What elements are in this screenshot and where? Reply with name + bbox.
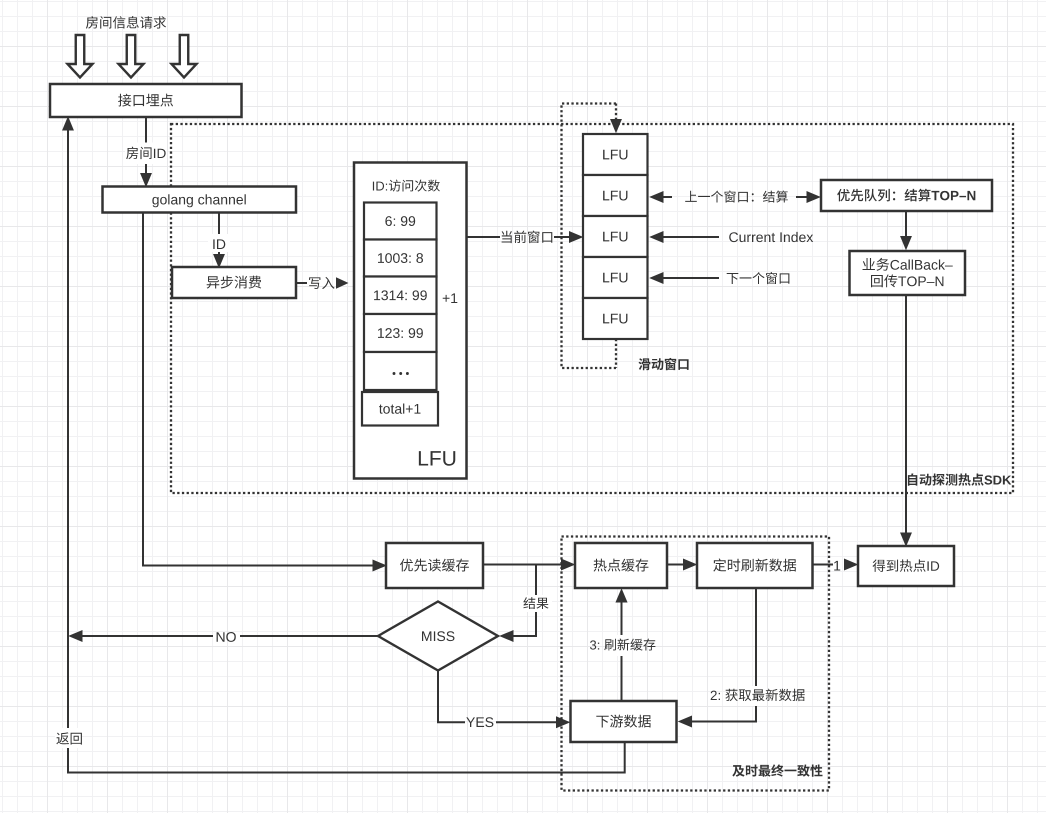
wire YES down-right: [438, 671, 465, 723]
dashed container 及时最终一致性: [562, 537, 830, 791]
arrowhead left into return line: [70, 631, 83, 641]
arrowhead right into 下游数据: [557, 717, 570, 728]
LFU stack cell 2: [583, 175, 648, 216]
wire golang channel to 异步消费: [218, 213, 220, 261]
wire 接口埋点 to golang channel: [145, 117, 147, 179]
wire 热点缓存 to 定时刷新数据: [667, 564, 684, 566]
wire 异步消费 to LFU table: [296, 282, 307, 284]
label 房间信息请求: [86, 16, 166, 29]
arrowhead down into 业务CallBack: [901, 237, 911, 250]
LFU stack cell 4: [583, 257, 648, 298]
diamond MISS: [378, 602, 498, 671]
wire Current Index: [662, 236, 719, 238]
hollow down arrow 1: [68, 35, 93, 78]
label 1: [834, 561, 840, 571]
LFU table cell dots: [364, 352, 437, 390]
arrowhead down into 异步消费: [214, 255, 224, 268]
label 房间ID: [125, 143, 167, 165]
wire LFU table to 当前窗口: [467, 236, 501, 238]
LFU table cell 1314: 99: [364, 277, 437, 315]
label 及时最终一致性: [732, 764, 822, 776]
wire 上一个窗口 left segment: [662, 196, 672, 198]
label 写入: [309, 277, 334, 289]
label 自动探测热点SDK: [908, 473, 1011, 485]
arrowhead right into 优先读缓存: [373, 560, 386, 571]
label 上一个窗口：结算: [685, 191, 788, 203]
box golang channel: [103, 187, 297, 213]
wire 当前窗口 to stack: [554, 236, 571, 238]
arrowhead left into stack (下一个窗口): [651, 273, 664, 283]
dotted wire top into stack: [615, 104, 617, 123]
label YES: [466, 717, 493, 727]
box LFU table container: [354, 163, 467, 479]
label ID: [208, 234, 230, 252]
arrowhead right into 热点缓存: [562, 559, 575, 570]
label 3: 刷新缓存: [590, 635, 655, 656]
LFU stack cell 3: [583, 216, 648, 257]
label 当前窗口: [502, 231, 553, 244]
arrowhead right into 得到热点ID: [845, 559, 858, 570]
label +1: [443, 293, 458, 303]
arrowhead left into 下游数据: [679, 716, 692, 727]
wire 定时刷新数据 to 下游数据: [692, 588, 756, 722]
dotted wire stack bottom: [615, 339, 617, 368]
label LFU big: [419, 451, 455, 466]
box 下游数据: [571, 701, 677, 742]
box 异步消费: [172, 267, 296, 298]
wire 优先读缓存 to 热点缓存: [483, 564, 563, 566]
arrowhead down into 得到热点ID: [901, 533, 911, 546]
label 滑动窗口: [639, 358, 689, 370]
wire 定时刷新数据 to 得到热点ID: [813, 564, 834, 566]
arrowhead up into 热点缓存: [616, 590, 627, 603]
label 2: 获取最新数据: [711, 686, 805, 706]
LFU table cell total+1: [362, 392, 438, 426]
arrowhead right into 定时刷新数据: [684, 559, 697, 570]
arrowhead up into 接口埋点: [63, 118, 73, 131]
arrowhead right into LFU stack: [570, 232, 583, 242]
hollow down arrow 2: [119, 35, 144, 78]
wire return path bottom-left: [68, 129, 625, 773]
box 优先读缓存: [386, 543, 483, 588]
LFU table cell 6: 99: [364, 203, 437, 240]
wire NO left segment: [240, 635, 378, 637]
arrowhead down into stack top: [611, 120, 621, 133]
LFU stack cell 5: [583, 298, 648, 339]
arrowhead down into golang channel: [141, 174, 151, 187]
box 优先队列：结算TOP-N: [821, 180, 992, 211]
LFU table cell dots marks: [393, 372, 409, 375]
box 接口埋点: [50, 84, 242, 117]
label 结果: [520, 595, 552, 612]
wire 上一个窗口 right segment: [796, 196, 807, 198]
arrowhead right into 优先队列: [807, 192, 820, 202]
wire 下游数据 to 热点缓存: [621, 601, 623, 701]
wire YES right segment: [496, 721, 556, 723]
solid triangle 写入 arrow: [336, 277, 349, 288]
box 得到热点ID: [858, 546, 954, 586]
wire 优先队列 to 业务CallBack: [905, 211, 907, 241]
LFU stack cell 1: [583, 134, 648, 175]
label 返回: [55, 728, 82, 748]
arrowhead left into stack (Current Index): [651, 232, 664, 242]
wire golang channel to 优先读缓存: [143, 213, 374, 566]
label Current Index: [729, 232, 813, 242]
hollow down arrow 3: [172, 35, 197, 78]
arrowhead left into MISS: [501, 631, 514, 641]
LFU table cell 123: 99: [364, 314, 437, 352]
box 定时刷新数据: [697, 543, 813, 588]
wire 结果 branch down to MISS: [512, 565, 536, 637]
wire 下一个窗口: [662, 277, 719, 279]
label NO: [217, 632, 236, 642]
box 业务CallBack-回传TOP-N: [850, 251, 966, 295]
label ID:访问次数: [373, 180, 440, 192]
LFU table cell 1003: 8: [364, 240, 437, 277]
wire NO right segment: [81, 635, 213, 637]
dotted outline sliding window left: [562, 104, 617, 369]
wire 业务CallBack to 得到热点ID: [905, 295, 907, 538]
arrowhead left into stack (上一个窗口): [651, 192, 664, 202]
box 热点缓存: [575, 543, 667, 588]
label 下一个窗口: [727, 272, 790, 284]
dashed container 自动探测热点SDK: [171, 124, 1013, 493]
